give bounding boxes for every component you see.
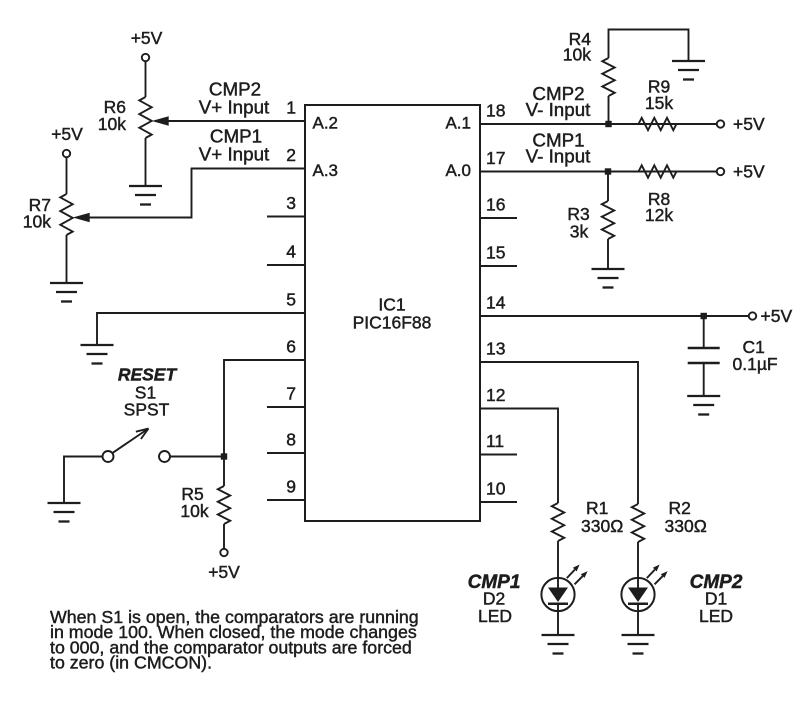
svg-text:LED: LED — [478, 606, 512, 626]
svg-text:330Ω: 330Ω — [581, 516, 623, 536]
svg-text:+5V: +5V — [131, 28, 163, 48]
pin 11 number — [486, 431, 504, 451]
svg-text:A.2: A.2 — [313, 114, 339, 133]
wire pin 7 stub — [267, 406, 305, 408]
ground R3 — [592, 269, 625, 288]
label D2 — [483, 589, 505, 609]
wire R6 top — [145, 61, 147, 97]
R7 wiper arrow — [73, 213, 90, 223]
switch S1 right contact — [159, 451, 170, 462]
label CMP1 V+ Input — [199, 126, 270, 165]
value R1 330ohm — [581, 516, 623, 536]
ground R7 — [50, 283, 83, 302]
wire C1 top — [703, 316, 705, 348]
svg-text:330Ω: 330Ω — [665, 516, 707, 536]
label R2 — [669, 498, 691, 518]
svg-text:16: 16 — [486, 195, 505, 215]
label CMP2 V+ Input — [199, 79, 270, 118]
wire pin 6 to S1 junction — [224, 360, 305, 457]
svg-text:PIC16F88: PIC16F88 — [353, 313, 432, 333]
label D1 LED — [699, 606, 733, 626]
ground D1 — [622, 635, 655, 654]
svg-text:+5V: +5V — [733, 114, 765, 134]
pin label A.2 — [313, 114, 339, 133]
svg-text:12k: 12k — [645, 205, 673, 225]
+5V label R9 — [733, 114, 765, 134]
value R4 10k — [563, 45, 591, 65]
R6 wiper arrow — [152, 116, 169, 126]
terminal +5V R5 — [220, 549, 227, 556]
svg-text:2: 2 — [286, 145, 296, 165]
wire R7 bottom — [66, 235, 68, 283]
wire pin 16 stub — [480, 217, 517, 219]
caption note text — [50, 607, 419, 673]
pin label A.3 — [313, 161, 339, 180]
wire S1 left to ground — [64, 457, 103, 504]
label SPST — [124, 400, 170, 420]
value R2 330ohm — [665, 516, 707, 536]
svg-text:12: 12 — [486, 385, 505, 405]
wire C1 bottom — [703, 363, 705, 396]
+5V label R5 — [208, 562, 240, 582]
wire pin 15 stub — [480, 265, 517, 267]
value R8 12k — [645, 205, 673, 225]
wire pin 12 to R1 — [480, 409, 558, 504]
pin 12 number — [486, 385, 505, 405]
svg-text:to zero (in CMCON).: to zero (in CMCON). — [50, 653, 212, 673]
junction pin18/R4/R9 — [605, 121, 611, 127]
pin 13 number — [486, 339, 505, 359]
pin 3 number — [286, 193, 296, 213]
svg-text:0.1µF: 0.1µF — [733, 354, 778, 374]
wire pin 18 — [480, 123, 717, 125]
wire D1 to ground — [637, 611, 639, 635]
wire R1 to D2 — [557, 541, 559, 578]
svg-text:4: 4 — [286, 242, 296, 262]
svg-text:R1: R1 — [586, 498, 608, 518]
wire R3 bottom — [607, 239, 609, 269]
svg-text:+5V: +5V — [51, 124, 83, 144]
wire pin 17 — [480, 171, 717, 173]
svg-text:15: 15 — [486, 243, 505, 263]
svg-text:3k: 3k — [570, 222, 589, 242]
svg-text:9: 9 — [286, 477, 296, 497]
svg-text:V- Input: V- Input — [526, 99, 592, 120]
value R6 10k — [98, 114, 126, 134]
wire pin 2 to R7 wiper — [88, 169, 305, 218]
wire R5 bottom — [223, 524, 225, 549]
label S1 — [135, 383, 156, 403]
svg-text:+5V: +5V — [761, 306, 793, 326]
+5V label pin14 — [761, 306, 793, 326]
junction pin14/C1 — [701, 313, 707, 319]
svg-text:11: 11 — [486, 431, 504, 451]
wire pin 13 to R2 — [480, 362, 638, 504]
svg-text:10k: 10k — [98, 114, 126, 134]
wire R4 bottom — [608, 96, 610, 124]
pin 4 number — [286, 242, 296, 262]
wire R2 to D1 — [637, 542, 639, 578]
value R5 10k — [180, 501, 208, 521]
svg-text:+5V: +5V — [208, 562, 240, 582]
pin label A.1 — [445, 114, 471, 133]
pin 5 number — [286, 290, 296, 310]
svg-text:V- Input: V- Input — [526, 146, 592, 167]
wire pin 9 stub — [267, 499, 305, 501]
svg-text:6: 6 — [286, 337, 296, 357]
junction pin17/R3/R8 — [605, 168, 611, 174]
label R5 — [181, 484, 203, 504]
svg-text:LED: LED — [699, 606, 733, 626]
label R7 — [29, 195, 51, 215]
IC IC1 PIC16F88 body — [305, 105, 480, 521]
resistor R7 10k potentiometer — [60, 194, 72, 235]
+5V label R7 — [51, 124, 83, 144]
pin 1 number — [286, 98, 296, 118]
svg-text:8: 8 — [286, 430, 296, 450]
svg-text:10k: 10k — [23, 212, 51, 232]
wire pin 4 stub — [267, 264, 305, 266]
ground R4 — [672, 61, 705, 80]
resistor R1 330 — [552, 503, 564, 541]
pin 6 number — [286, 337, 296, 357]
terminal +5V R6 — [142, 54, 149, 61]
svg-text:18: 18 — [486, 101, 505, 121]
wire pin 8 stub — [267, 452, 305, 454]
pin 2 number — [286, 145, 296, 165]
svg-text:13: 13 — [486, 339, 505, 359]
svg-text:10k: 10k — [180, 501, 208, 521]
pin 17 number — [486, 148, 505, 168]
label CMP2 D1 — [690, 572, 743, 593]
capacitor C1 0.1uF — [688, 348, 720, 363]
resistor R4 10k — [602, 58, 614, 96]
ground pin 5 — [81, 345, 114, 364]
svg-text:V+ Input: V+ Input — [199, 144, 270, 165]
svg-text:3: 3 — [286, 193, 296, 213]
svg-text:RESET: RESET — [118, 365, 178, 385]
svg-text:IC1: IC1 — [378, 295, 405, 315]
ground C1 — [687, 396, 720, 415]
wire pin 14 — [480, 315, 749, 317]
pin 10 number — [486, 479, 506, 499]
switch S1 left contact — [103, 451, 114, 462]
+5V label R8 — [733, 162, 765, 182]
pin label A.0 — [445, 161, 471, 180]
svg-text:17: 17 — [486, 148, 505, 168]
terminal +5V R9 — [717, 120, 724, 127]
wire D2 to ground — [557, 611, 559, 635]
wire R3 top — [607, 172, 609, 202]
pin 7 number — [286, 384, 296, 404]
LED D2 — [541, 565, 587, 612]
pin 14 number — [486, 293, 506, 313]
resistor R9 15k — [639, 118, 677, 130]
pin 16 number — [486, 195, 505, 215]
wire R4 top to ground — [609, 30, 689, 62]
wire pin 5 to ground — [97, 313, 305, 345]
value R3 3k — [570, 222, 589, 242]
wire pin 3 stub — [267, 216, 305, 218]
wire S1 right to junction — [170, 456, 224, 458]
value R9 15k — [645, 93, 673, 113]
pin 8 number — [286, 430, 296, 450]
svg-text:A.1: A.1 — [445, 114, 471, 133]
switch S1 arm — [113, 429, 149, 453]
svg-text:14: 14 — [486, 293, 506, 313]
label CMP2 V- Input — [526, 83, 592, 120]
label D1 — [705, 589, 727, 609]
svg-text:10k: 10k — [563, 45, 591, 65]
value C1 0.1uF — [733, 354, 778, 374]
terminal +5V pin14 — [749, 312, 756, 319]
pin 9 number — [286, 477, 296, 497]
wire pin 11 stub — [480, 454, 517, 456]
ground S1 — [48, 503, 81, 522]
resistor R6 10k potentiometer — [139, 97, 151, 138]
resistor R2 330 — [632, 504, 644, 542]
label C1 — [743, 337, 765, 357]
junction S1/R5/pin6 — [221, 453, 227, 459]
label RESET — [118, 365, 178, 385]
wire pin 1 to R6 wiper — [166, 120, 305, 122]
label R8 — [648, 189, 670, 209]
label R9 — [648, 77, 670, 97]
pin 15 number — [486, 243, 505, 263]
svg-text:+5V: +5V — [733, 162, 765, 182]
svg-text:15k: 15k — [645, 93, 673, 113]
label CMP1 V- Input — [526, 130, 592, 167]
resistor R8 12k — [639, 165, 677, 177]
svg-text:R2: R2 — [669, 498, 691, 518]
wire R6 bottom — [145, 138, 147, 186]
wire R5 top — [223, 457, 225, 487]
label CMP1 D2 — [468, 572, 521, 593]
label R3 — [567, 204, 589, 224]
resistor R5 10k — [218, 486, 230, 524]
+5V label R6 — [131, 28, 163, 48]
svg-text:1: 1 — [286, 98, 296, 118]
svg-text:7: 7 — [286, 384, 296, 404]
wire R7 top — [66, 157, 68, 194]
svg-text:10: 10 — [486, 479, 506, 499]
ground R6 — [129, 186, 162, 205]
terminal +5V R7 — [63, 150, 70, 157]
svg-text:A.0: A.0 — [445, 161, 471, 180]
svg-text:A.3: A.3 — [313, 161, 339, 180]
wire pin 10 stub — [480, 501, 517, 503]
value R7 10k — [23, 212, 51, 232]
LED D1 — [621, 565, 667, 612]
svg-text:V+ Input: V+ Input — [199, 97, 270, 118]
ground D2 — [542, 635, 575, 654]
label R4 — [569, 29, 592, 49]
label R1 — [586, 498, 608, 518]
label R6 — [104, 97, 126, 117]
svg-text:5: 5 — [286, 290, 296, 310]
svg-text:SPST: SPST — [124, 400, 170, 420]
pin 18 number — [486, 101, 505, 121]
resistor R3 3k — [602, 201, 614, 239]
terminal +5V R8 — [717, 168, 724, 175]
label D2 LED — [478, 606, 512, 626]
